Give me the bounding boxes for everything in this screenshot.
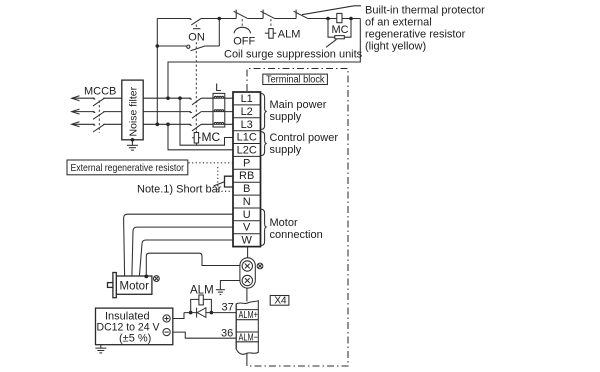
switch ALM relay contact (b-contact) <box>261 10 275 29</box>
svg-text:L3: L3 <box>241 119 253 131</box>
relay coil symbol ALM (actuator) <box>265 29 277 39</box>
brace: motor connection group <box>261 209 267 245</box>
node: dot L1 x180 (L1C tap) <box>178 96 182 100</box>
terminal block column <box>233 92 261 247</box>
motor flange <box>113 273 116 298</box>
motor shaft <box>108 283 113 288</box>
node: earth junction dot on motor <box>144 275 148 279</box>
svg-text:(light yellow): (light yellow) <box>365 41 426 53</box>
svg-text:OFF: OFF <box>233 35 255 47</box>
wire: L3 from noise filter to MC contact <box>143 123 191 125</box>
dotted leader to P terminal <box>189 163 234 192</box>
MCCB pole 3 contact <box>93 124 95 125</box>
svg-text:supply: supply <box>270 111 302 123</box>
screw bottom (with cross) <box>242 275 252 285</box>
wire: L2C feed (from L3 dot down and right) <box>168 124 233 150</box>
wire: top control rail left segment <box>157 18 190 20</box>
node: dot right of diode <box>210 311 214 315</box>
power supply box <box>96 308 173 345</box>
svg-text:L1: L1 <box>241 93 253 105</box>
svg-text:ALM: ALM <box>278 29 301 41</box>
svg-text:L2: L2 <box>241 106 253 118</box>
relay coil ALM (external) <box>191 295 212 313</box>
svg-text:X4: X4 <box>274 295 287 306</box>
svg-text:of an external: of an external <box>365 17 432 29</box>
wire: L1 to reactor <box>201 97 233 99</box>
svg-text:ALM−: ALM− <box>239 332 259 343</box>
node: dot L3 x157 (control tap) <box>156 123 160 127</box>
leader line to thermal protector note <box>302 6 361 15</box>
svg-text:B: B <box>243 183 250 195</box>
X4 connector strip (torn edges) <box>236 301 258 355</box>
wire: rail right end down <box>168 19 360 99</box>
minus terminal circle <box>163 329 170 336</box>
wire: from - terminal (pin 36) <box>173 332 236 338</box>
svg-text:(±5 %): (±5 %) <box>119 333 151 345</box>
wire: connector to X4 strip <box>246 288 248 301</box>
svg-text:Coil surge suppression units: Coil surge suppression units <box>224 49 363 61</box>
wire: X4 bottom to outline <box>246 353 248 366</box>
wire: L1C feed (from L1 dot down and right) <box>180 98 233 145</box>
svg-text:L: L <box>215 82 221 94</box>
wire: self-hold loop left vertical (down to L3) <box>156 19 158 125</box>
wire: rail from ALM to thermal protector contact <box>274 18 296 20</box>
svg-text:Motor: Motor <box>270 217 298 229</box>
svg-text:Noise filter: Noise filter <box>128 86 140 136</box>
svg-text:External regenerative resistor: External regenerative resistor <box>71 162 185 174</box>
mechanical link dashed line (ON/MC) <box>195 42 197 131</box>
wire: rail from OFF to ALM contact <box>247 18 263 20</box>
svg-text:V: V <box>243 222 251 234</box>
svg-text:L2C: L2C <box>237 145 257 157</box>
svg-text:Main power: Main power <box>270 99 327 111</box>
reactor winding humps L3 <box>214 122 224 124</box>
power input arrows and MCCB poles <box>72 96 122 133</box>
wire: L3 to reactor <box>201 123 233 125</box>
wire: L2 from noise filter to MC contact <box>143 111 191 113</box>
svg-text:ON: ON <box>188 32 205 44</box>
node: dot L1 x168 (control rail tap) <box>166 96 170 100</box>
node: junction dot left of MC coil <box>326 17 330 21</box>
switch thermal protector contact (b-contact) <box>294 10 308 19</box>
reactor winding humps L1 <box>214 96 224 98</box>
svg-text:Built-in thermal protector: Built-in thermal protector <box>365 5 485 17</box>
terminal dividers <box>233 105 261 234</box>
svg-text:L1C: L1C <box>237 132 257 144</box>
arrow phase T <box>72 122 80 127</box>
switch MC main contact pole1 <box>189 98 191 99</box>
switch MC auxiliary contact <box>187 45 206 51</box>
switch MC main contact pole3 <box>189 124 191 125</box>
wire: rail from ON to junction <box>202 18 237 20</box>
ground: noise filter earth <box>127 140 138 150</box>
svg-text:RB: RB <box>239 170 254 182</box>
label box X4 <box>270 296 289 306</box>
switch MC main contact pole2 <box>189 111 191 112</box>
wire: phase R to noise filter <box>103 97 122 99</box>
svg-text:MC: MC <box>202 130 221 144</box>
svg-text:N: N <box>243 196 251 208</box>
motor body <box>116 276 152 294</box>
svg-text:W: W <box>242 235 253 247</box>
wire: U phase to motor <box>124 214 233 276</box>
MCCB pole 1 contact <box>93 98 95 99</box>
wire: power supply earth <box>100 345 102 348</box>
brace: main power group <box>261 94 267 130</box>
wire: phase T to noise filter <box>103 123 122 125</box>
brace: control power group <box>261 132 267 156</box>
node: junction dot at self-hold branch <box>218 17 222 21</box>
node: dot L3 x168 (L2C tap) <box>166 123 170 127</box>
screw symbol beside connector <box>257 263 263 269</box>
wire: L1 from noise filter to MC contact <box>143 97 191 99</box>
node: dot left of diode <box>189 311 193 315</box>
wire: phase S input line <box>72 111 95 113</box>
screw top (with cross) <box>242 261 252 271</box>
svg-text:connection: connection <box>270 229 323 241</box>
wire: phase R input line <box>72 97 95 99</box>
earth terminal connector (oval with screws) <box>240 258 255 288</box>
svg-text:MC: MC <box>332 24 349 36</box>
switch ON pushbutton contact (a-contact) <box>189 18 201 29</box>
wire: phase S to noise filter <box>103 111 122 113</box>
leader line to surge suppressor <box>326 39 337 47</box>
terminal labels L1 L2 L3 L1C L2C P RB B N U V W <box>237 93 257 247</box>
node: junction dot right of MC coil <box>349 17 353 21</box>
wire: W terminal down to earth connector <box>247 247 249 258</box>
wire: phase T input line <box>72 123 95 125</box>
noise filter box <box>122 80 143 140</box>
diode (surge absorber) <box>197 308 206 318</box>
wire: W phase to motor <box>139 240 233 276</box>
wire: L2 to reactor <box>201 111 233 113</box>
reactor L box <box>213 93 225 127</box>
wire: ALM+ line (pin 37) <box>184 312 236 314</box>
switch OFF pushbutton contact (b-contact) <box>234 10 251 34</box>
svg-text:Note.1) Short bar: Note.1) Short bar <box>137 183 222 195</box>
reactor winding humps L2 <box>214 110 224 112</box>
svg-text:Control power: Control power <box>270 132 339 144</box>
label box: Terminal block <box>263 74 328 84</box>
wire: motor earth to connector <box>146 253 240 276</box>
svg-text:MCCB: MCCB <box>84 86 116 98</box>
note text: built-in thermal protector <box>365 5 485 53</box>
short bar between RB and B <box>225 176 234 187</box>
MCCB pole 2 contact <box>93 111 95 112</box>
contactor coil MC (near L1C) <box>192 131 200 145</box>
plus terminal circle <box>163 315 170 322</box>
wire: connector bottom screw to ground <box>220 281 240 290</box>
MCCB mechanical link <box>98 101 100 133</box>
node: junction dot on left vertical at aux line <box>156 44 160 48</box>
wire: from + terminal <box>173 313 184 319</box>
wire: V phase to motor <box>132 227 233 276</box>
label box: External regenerative resistor <box>67 160 188 175</box>
node: noise filter earth junction dot <box>131 138 135 142</box>
X4 cell dividers <box>236 310 258 342</box>
svg-text:regenerative resistor: regenerative resistor <box>365 29 466 41</box>
leader to short bar <box>214 182 225 186</box>
svg-text:36: 36 <box>221 327 233 339</box>
screw symbol beside motor <box>154 276 160 282</box>
svg-text:U: U <box>243 209 251 221</box>
ground: power supply earth <box>95 348 106 353</box>
svg-text:Motor: Motor <box>120 281 150 293</box>
svg-text:ALM+: ALM+ <box>239 310 259 321</box>
arrow phase R <box>72 96 80 101</box>
svg-text:Terminal block: Terminal block <box>266 74 325 85</box>
contactor coil MC (in rail) <box>337 13 342 22</box>
wire: self-hold loop right vertical <box>218 19 220 47</box>
arrow phase S <box>72 109 80 114</box>
label: Insulated DC12 to 24 V (+-5 %) <box>97 311 161 345</box>
svg-text:P: P <box>243 157 250 169</box>
wire: auxiliary contact line <box>157 45 186 47</box>
surge suppressor branch (parallel RC) <box>328 19 351 39</box>
wire: rail from protector contact to MC coil <box>307 18 360 20</box>
servo amplifier dash-dot outline <box>247 69 348 367</box>
svg-text:37: 37 <box>222 302 234 314</box>
svg-text:supply: supply <box>270 144 302 156</box>
ground: near connector <box>216 290 225 295</box>
